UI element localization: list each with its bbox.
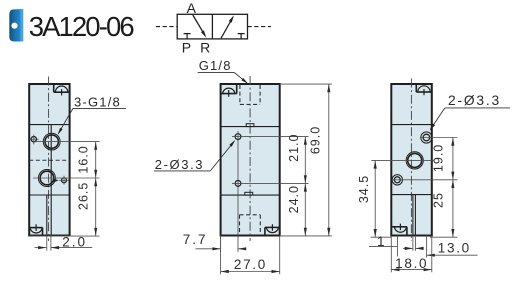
right cell blocked port symbol xyxy=(238,33,245,35)
right view bottom-left screw notch xyxy=(406,227,408,236)
svg-text:2-Ø3.3: 2-Ø3.3 xyxy=(448,93,501,108)
left view step line upper xyxy=(29,124,69,126)
middle view step line upper xyxy=(221,126,280,128)
left view dim extension bottom xyxy=(29,235,99,237)
left view hidden dashed line xyxy=(29,159,69,161)
middle view hidden top port hole xyxy=(239,85,241,104)
svg-text:19.0: 19.0 xyxy=(432,144,446,172)
svg-text:1: 1 xyxy=(377,234,385,249)
svg-text:3-G1/8: 3-G1/8 xyxy=(74,94,121,109)
left view port circle G1/8 upper xyxy=(43,133,60,150)
middle view hidden bottom slot xyxy=(239,215,241,235)
dim 69.0 xyxy=(328,84,330,236)
left view top-right screw notch xyxy=(53,84,55,92)
svg-text:13.0: 13.0 xyxy=(438,240,471,255)
middle view tab lower xyxy=(245,192,253,195)
dim 16.0 xyxy=(95,142,97,178)
middle dim extension row h1 xyxy=(232,136,309,138)
left view small hole left xyxy=(31,137,36,142)
svg-text:7.7: 7.7 xyxy=(183,232,208,247)
left view body outline xyxy=(29,84,69,236)
svg-text:2.0: 2.0 xyxy=(62,234,87,249)
right view top-right screw notch xyxy=(415,84,417,92)
dim 26.5 xyxy=(95,178,97,236)
right view body outline xyxy=(391,84,432,236)
left view 2mm step edge xyxy=(46,195,48,236)
svg-text:34.5: 34.5 xyxy=(357,175,371,203)
right view counterbore hole top xyxy=(421,132,432,143)
left cell flow arrow R-A xyxy=(193,15,205,36)
dim 25 xyxy=(452,180,454,237)
left view step line lower xyxy=(29,194,69,196)
middle dim extension top xyxy=(280,83,332,85)
right view counterbore hole left xyxy=(392,175,402,185)
svg-text:24.0: 24.0 xyxy=(287,185,301,213)
mounting hole H2 xyxy=(235,181,241,187)
svg-text:P: P xyxy=(182,39,191,55)
svg-text:A: A xyxy=(187,0,197,16)
right view slot edge a xyxy=(412,195,414,236)
dim 19.0 xyxy=(452,138,454,180)
right dim extension bottom right xyxy=(430,236,458,238)
svg-text:2-Ø3.3: 2-Ø3.3 xyxy=(155,157,204,172)
svg-text:27.0: 27.0 xyxy=(234,257,267,272)
pilot dashed line left xyxy=(156,26,177,28)
dim 34.5 xyxy=(374,160,376,237)
middle view bottom-right screw notch xyxy=(264,227,266,235)
dim 7.7 extension xyxy=(220,236,222,253)
right cell flow arrow P-A xyxy=(221,18,233,39)
middle dim extension row h2 xyxy=(232,182,309,184)
right view centerline xyxy=(410,79,412,242)
dim 2.0 xyxy=(35,247,47,249)
svg-text:16.0: 16.0 xyxy=(77,145,91,173)
left cell blocked port symbol xyxy=(184,33,191,35)
dim 2.0 extension lines xyxy=(46,236,48,251)
dim 24.0 xyxy=(304,183,306,236)
dim 18.0 extensions xyxy=(390,236,392,273)
svg-text:18.0: 18.0 xyxy=(395,256,428,271)
middle view top-left screw notch xyxy=(236,84,238,94)
valve symbol box U1 xyxy=(177,14,247,39)
dim 13.0 xyxy=(427,254,478,256)
svg-text:G1/8: G1/8 xyxy=(199,58,232,73)
left view centerline xyxy=(48,77,50,242)
right view bore circle xyxy=(406,152,423,169)
middle view tab upper xyxy=(246,124,254,127)
dim 18.0 xyxy=(391,269,432,271)
dim 27.0 extensions xyxy=(220,236,222,275)
svg-text:25: 25 xyxy=(432,192,446,208)
dim 7.7 xyxy=(196,248,221,250)
svg-text:3A120-06: 3A120-06 xyxy=(29,11,135,42)
dim 1 xyxy=(369,245,398,247)
right dim extension row1 xyxy=(420,137,457,139)
right dim extension big circle row xyxy=(371,159,433,161)
right view slot edge b xyxy=(414,195,416,236)
middle view centerline xyxy=(249,76,251,241)
left view bottom-left screw notch xyxy=(42,228,44,236)
left view internal edge xyxy=(50,125,52,236)
left view port circle G1/8 lower xyxy=(38,170,55,187)
mounting hole H1 xyxy=(235,134,241,140)
dim 27.0 xyxy=(221,271,280,273)
left view dim extension row1 xyxy=(36,141,100,143)
right view step line upper xyxy=(391,124,432,126)
left view small hole right xyxy=(62,178,67,183)
middle view step line lower xyxy=(221,194,280,196)
right dim extension bottom left xyxy=(371,236,392,238)
svg-text:26.5: 26.5 xyxy=(77,182,91,210)
pilot dashed line right xyxy=(248,26,272,28)
svg-text:21.0: 21.0 xyxy=(287,134,301,162)
middle dim extension bottom xyxy=(281,235,332,237)
right dim extension row2 xyxy=(392,179,458,181)
dim 21.0 xyxy=(304,137,306,184)
left view dim extension row2 xyxy=(33,177,100,179)
svg-text:69.0: 69.0 xyxy=(309,126,323,154)
middle view body outline xyxy=(221,84,280,236)
svg-text:R: R xyxy=(200,39,210,55)
right view step line lower xyxy=(391,194,432,196)
dim 1 extensions xyxy=(397,236,399,257)
